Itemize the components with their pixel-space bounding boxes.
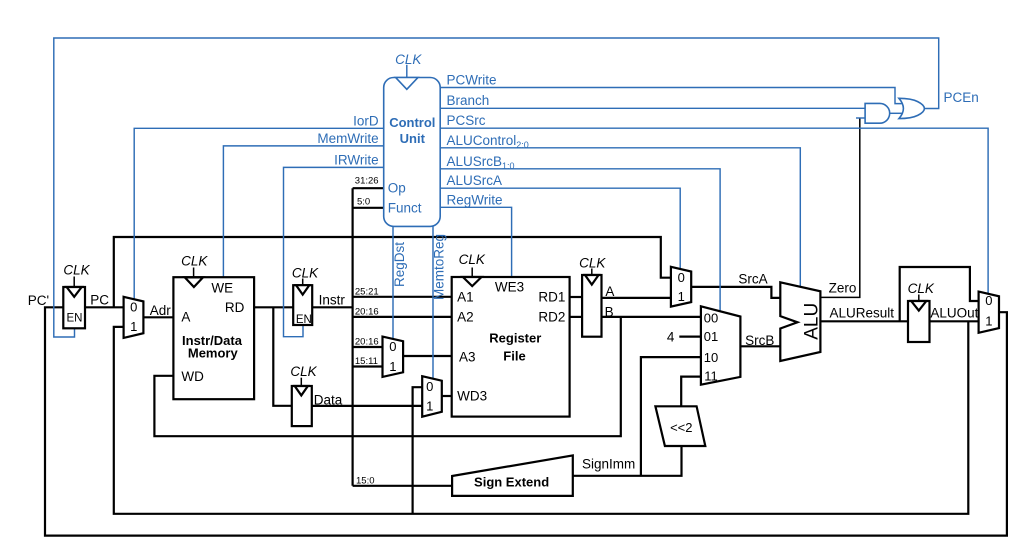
wire PC output to IorD mux input 0	[85, 306, 124, 308]
svg-text:IorD: IorD	[353, 114, 379, 129]
wire IRWrite select	[284, 167, 384, 336]
svg-text:EN: EN	[296, 314, 312, 326]
wire A1 tap 25:21	[353, 296, 452, 298]
svg-text:Sign Extend: Sign Extend	[474, 475, 549, 490]
svg-text:IRWrite: IRWrite	[334, 153, 379, 168]
wire IorD select	[134, 128, 384, 299]
svg-text:1: 1	[985, 314, 992, 329]
svg-text:MemtoReg: MemtoReg	[432, 234, 447, 300]
svg-text:A2: A2	[457, 309, 474, 324]
wire PCEn from OR gate to PC register enable	[54, 38, 939, 337]
register A/B	[579, 256, 606, 337]
wire PCSrc select	[440, 128, 988, 293]
wire RD2 to B register	[570, 316, 583, 318]
wire RD to Instr register	[254, 306, 293, 308]
gate AND	[865, 103, 890, 123]
ALU U2	[780, 282, 822, 361]
mux IorD	[124, 297, 144, 338]
register Instr	[292, 265, 319, 326]
svg-text:MemWrite: MemWrite	[317, 131, 378, 146]
wire A to SrcA mux input 1	[602, 297, 671, 299]
wire B to SrcB mux input 00	[602, 316, 701, 318]
svg-text:<<2: <<2	[670, 420, 692, 435]
svg-text:5:0: 5:0	[357, 197, 370, 208]
svg-text:Instr: Instr	[319, 293, 346, 308]
register file	[452, 252, 570, 417]
svg-text:RegWrite: RegWrite	[447, 192, 503, 207]
svg-text:Unit: Unit	[400, 131, 426, 146]
svg-text:ALUResult: ALUResult	[830, 306, 895, 321]
wire B register loop back to memory WD	[154, 317, 620, 436]
control unit U1	[384, 52, 441, 227]
svg-text:CLK: CLK	[181, 254, 208, 269]
svg-text:PC: PC	[90, 292, 109, 307]
wire ALUOut branch up to MemtoReg mux input 0	[413, 387, 423, 514]
wire Instr register output to instruction bus	[312, 306, 352, 308]
wire instruction bus vertical	[352, 188, 354, 486]
svg-text:25:21: 25:21	[355, 287, 379, 298]
wire MemtoReg select	[432, 226, 434, 378]
sign extend unit	[452, 455, 573, 496]
svg-text:20:16: 20:16	[355, 337, 379, 348]
wire MemtoReg mux output to WD3	[442, 395, 452, 397]
wire RD branch down to Data register	[273, 307, 292, 406]
svg-text:4: 4	[667, 329, 675, 344]
svg-text:CLK: CLK	[579, 256, 606, 271]
wire A2 tap 20:16	[353, 316, 452, 318]
mux RegDst	[383, 337, 404, 377]
wire ALUResult bridge to PCSrc mux input 0	[900, 267, 979, 321]
wire Data register output to MemtoReg mux input 1	[312, 405, 422, 407]
wire RegWrite to register file WE3	[440, 207, 511, 277]
svg-text:Funct: Funct	[388, 201, 422, 216]
mux SrcA	[671, 267, 691, 307]
svg-text:RegDst: RegDst	[392, 242, 407, 287]
svg-text:0: 0	[389, 339, 396, 354]
wire ALUSrcA select	[440, 188, 680, 269]
wire SignImm up to SrcB mux input 10	[641, 357, 701, 476]
wire Sign Extend input tap 15:0	[353, 485, 453, 487]
svg-text:1: 1	[389, 359, 396, 374]
register PC	[63, 262, 90, 328]
svg-text:15:0: 15:0	[356, 476, 375, 487]
svg-text:CLK: CLK	[395, 52, 422, 67]
svg-text:Register: Register	[489, 330, 541, 345]
svg-text:1: 1	[678, 289, 685, 304]
svg-text:Control: Control	[389, 115, 435, 130]
wire SignImm from Sign Extend to shifter	[573, 446, 682, 476]
svg-text:RD: RD	[225, 300, 245, 315]
svg-text:20:16: 20:16	[355, 307, 379, 318]
svg-text:WE3: WE3	[495, 280, 524, 295]
mux MemtoReg	[422, 376, 442, 417]
svg-text:SignImm: SignImm	[582, 456, 635, 471]
svg-text:EN: EN	[67, 313, 83, 325]
wire AND output to OR gate	[890, 112, 903, 114]
svg-text:A: A	[605, 284, 614, 299]
wire SrcB from mux to ALU	[740, 345, 780, 347]
register Data	[290, 364, 317, 426]
svg-text:ALUControl2:0: ALUControl2:0	[447, 133, 529, 150]
svg-text:Memory: Memory	[188, 345, 239, 360]
wire Zero from ALU up to AND gate	[820, 118, 859, 297]
svg-text:PC': PC'	[28, 293, 49, 308]
svg-text:ALU: ALU	[802, 303, 823, 340]
wire shifted SignImm to SrcB mux input 11	[681, 377, 701, 407]
svg-text:WE: WE	[211, 280, 233, 295]
wire ALUOut register output to PCSrc mux input 1	[930, 320, 979, 322]
svg-text:A1: A1	[457, 289, 474, 304]
svg-text:CLK: CLK	[290, 364, 317, 379]
svg-text:0: 0	[426, 379, 433, 394]
mux PCSrc	[979, 292, 999, 333]
svg-text:WD: WD	[181, 369, 204, 384]
wire RD1 to A register	[570, 296, 583, 298]
svg-text:PCEn: PCEn	[944, 90, 979, 105]
svg-text:1: 1	[426, 398, 433, 413]
wire ALUControl to ALU	[440, 148, 800, 287]
svg-text:File: File	[503, 349, 525, 364]
shifter <<2	[655, 406, 705, 446]
wire PC' feedback from PCSrc mux output along bottom	[45, 307, 1007, 535]
svg-text:Zero: Zero	[829, 281, 857, 296]
svg-text:CLK: CLK	[63, 262, 90, 277]
svg-text:CLK: CLK	[292, 265, 319, 280]
gate OR	[899, 98, 925, 118]
svg-text:ALUSrcB1:0: ALUSrcB1:0	[447, 154, 515, 171]
mux SrcB	[701, 306, 741, 384]
svg-text:RD1: RD1	[538, 289, 565, 304]
wire RegDst select	[392, 226, 394, 339]
svg-text:A3: A3	[459, 349, 476, 364]
svg-text:11: 11	[704, 368, 718, 383]
svg-text:CLK: CLK	[459, 252, 486, 267]
svg-text:31:26: 31:26	[355, 175, 379, 186]
wire ALUResult to ALUOut register	[820, 320, 908, 322]
svg-text:0: 0	[678, 270, 685, 285]
svg-text:A: A	[181, 309, 190, 324]
svg-text:00: 00	[704, 310, 718, 325]
wire RegDst mux output to A3	[403, 355, 452, 357]
svg-text:RD2: RD2	[538, 309, 565, 324]
svg-text:1: 1	[130, 319, 137, 334]
svg-text:01: 01	[704, 329, 718, 344]
svg-text:B: B	[605, 304, 614, 319]
wire RegDst mux input 0 tap 20:16	[353, 346, 383, 348]
register ALUOut	[908, 281, 935, 342]
svg-text:Data: Data	[314, 392, 343, 407]
svg-text:15:11: 15:11	[355, 356, 378, 367]
svg-text:SrcB: SrcB	[745, 333, 774, 348]
svg-text:Adr: Adr	[150, 303, 172, 318]
svg-text:WD3: WD3	[457, 388, 487, 403]
memory Instr/Data Memory	[173, 254, 254, 400]
svg-text:ALUOut: ALUOut	[930, 305, 978, 320]
wire Adr from IorD mux to memory A	[143, 316, 173, 318]
svg-text:10: 10	[704, 350, 718, 365]
wire SrcA from mux to ALU	[691, 287, 780, 298]
wire RegDst mux input 1 tap 15:11	[353, 365, 383, 367]
wire ALUOut feedback to IorD mux input 1	[114, 321, 969, 514]
svg-text:0: 0	[130, 300, 137, 315]
wire Funct tap 5:0	[353, 207, 384, 209]
svg-text:Branch: Branch	[447, 93, 490, 108]
svg-text:ALUSrcA: ALUSrcA	[447, 173, 503, 188]
svg-text:CLK: CLK	[908, 281, 935, 296]
svg-text:PCWrite: PCWrite	[447, 73, 497, 88]
svg-text:0: 0	[985, 293, 992, 308]
wire Op tap 31:26	[353, 187, 384, 189]
wire PCWrite to OR gate	[440, 88, 901, 104]
wire Zero stub into AND gate	[856, 117, 865, 119]
svg-text:SrcA: SrcA	[738, 271, 767, 286]
wire Branch to AND gate	[440, 107, 865, 109]
wire ALUSrcB select	[440, 169, 720, 312]
wire MemWrite select	[223, 146, 383, 277]
svg-text:PCSrc: PCSrc	[447, 113, 486, 128]
wire PC tap up and across top bus to SrcA mux input 0	[114, 237, 671, 307]
wire constant 4 to SrcB mux input 01	[679, 336, 701, 338]
svg-text:Op: Op	[388, 180, 406, 195]
